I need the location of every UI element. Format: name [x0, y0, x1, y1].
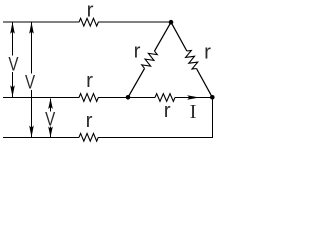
- svg-text:V: V: [25, 71, 36, 93]
- svg-text:r: r: [164, 99, 171, 122]
- svg-text:r: r: [204, 41, 211, 64]
- svg-text:r: r: [86, 109, 93, 132]
- svg-text:r: r: [134, 40, 141, 63]
- svg-text:V: V: [45, 108, 56, 130]
- svg-text:r: r: [87, 0, 94, 21]
- svg-text:V: V: [8, 53, 19, 75]
- svg-text:r: r: [86, 69, 93, 92]
- svg-text:I: I: [190, 101, 197, 123]
